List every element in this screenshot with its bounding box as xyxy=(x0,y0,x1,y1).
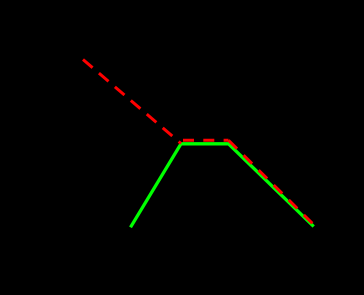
red dashed curve: descending diagonal segment xyxy=(83,60,181,144)
red dashed curve: final descending segment xyxy=(229,140,314,224)
red dashed curve: plateau segment xyxy=(183,139,229,142)
green solid curve xyxy=(131,144,314,228)
